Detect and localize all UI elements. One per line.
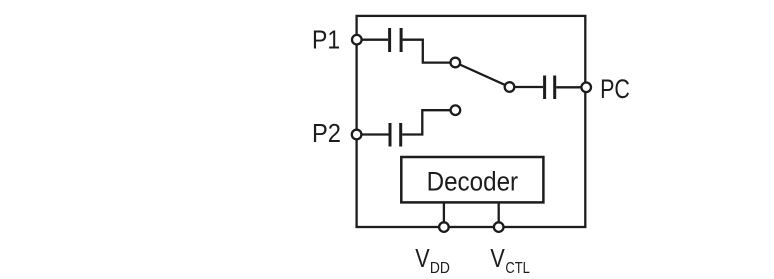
svg-text:P2: P2 bbox=[312, 118, 341, 148]
svg-text:PC: PC bbox=[600, 74, 630, 104]
terminal VCTL (port node) bbox=[494, 222, 504, 232]
wire P1 terminal to capacitor C1 bbox=[357, 39, 388, 41]
label Decoder bbox=[427, 166, 519, 196]
outer IC boundary box bbox=[357, 16, 586, 227]
svg-text:DD: DD bbox=[430, 260, 450, 277]
svg-text:Decoder: Decoder bbox=[427, 166, 519, 196]
switch pole contact A (node) bbox=[451, 58, 461, 68]
wire decoder to VDD terminal bbox=[443, 202, 445, 227]
capacitor C2 (series cap on PC path) bbox=[545, 76, 555, 100]
terminal P2 (port node) bbox=[352, 130, 362, 140]
label VCTL bbox=[490, 245, 530, 277]
wire C1 to switch pole contact A bbox=[403, 40, 453, 63]
wire C3 up to open switch contact C bbox=[402, 110, 453, 134]
switch throw contact B (node) bbox=[505, 82, 515, 92]
svg-text:V: V bbox=[415, 245, 429, 273]
terminal P1 (port node) bbox=[352, 35, 362, 45]
label VDD bbox=[415, 245, 450, 277]
svg-text:P1: P1 bbox=[312, 25, 340, 55]
switch arm from contact A to contact B bbox=[455, 63, 509, 88]
svg-text:V: V bbox=[490, 245, 504, 273]
open switch contact C (P2 branch, node) bbox=[451, 105, 461, 115]
wire C2 to PC terminal bbox=[556, 86, 584, 88]
capacitor C3 (series cap on P2 path) bbox=[390, 123, 401, 147]
terminal PC (port node) bbox=[581, 83, 591, 93]
label PC bbox=[600, 74, 630, 104]
decoder block bbox=[401, 157, 543, 202]
wire P2 terminal to capacitor C3 bbox=[357, 133, 389, 135]
svg-text:CTL: CTL bbox=[505, 260, 530, 277]
label P1 bbox=[312, 25, 340, 55]
terminal VDD (port node) bbox=[439, 222, 449, 232]
label P2 bbox=[312, 118, 341, 148]
wire switch contact B to capacitor C2 bbox=[512, 86, 543, 88]
wire decoder to VCTL terminal bbox=[498, 202, 500, 227]
capacitor C1 (series cap on P1 path) bbox=[390, 28, 402, 52]
